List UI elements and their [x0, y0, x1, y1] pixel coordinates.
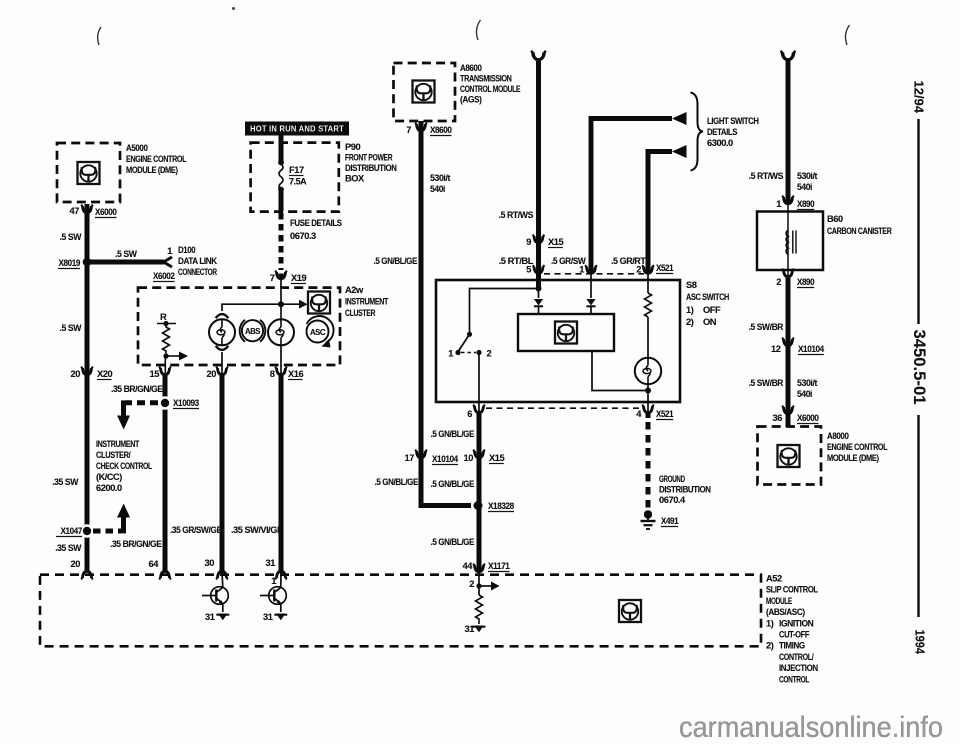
svg-text:31: 31 — [465, 624, 475, 634]
icon ASC — [307, 321, 329, 343]
wire C pin20 to pin30 — [220, 375, 225, 572]
scan dot — [232, 7, 235, 10]
lamp in S8 — [635, 358, 661, 384]
svg-text:1994: 1994 — [913, 630, 928, 655]
svg-text:X491: X491 — [661, 516, 678, 526]
svg-text:CHECK CONTROL: CHECK CONTROL — [96, 461, 152, 471]
wire col A from A5000 to A52 — [85, 204, 90, 573]
svg-text:CLUSTER/: CLUSTER/ — [96, 450, 131, 460]
svg-text:DATA LINK: DATA LINK — [178, 256, 217, 266]
connector X6000 pin 47 — [81, 205, 93, 213]
connector X16 pin 8 — [275, 367, 287, 375]
module A8600 icon — [413, 81, 435, 103]
svg-text:30: 30 — [205, 558, 215, 568]
svg-text:20: 20 — [71, 559, 81, 569]
svg-text:MODULE (DME): MODULE (DME) — [126, 165, 178, 175]
svg-text:X8019: X8019 — [59, 258, 81, 268]
wire pin4 ground distribution dashed — [646, 413, 651, 510]
wire pin12 down — [786, 347, 791, 414]
module A8000 box — [758, 427, 822, 485]
svg-text:7: 7 — [406, 125, 411, 135]
svg-text:530i/t: 530i/t — [797, 378, 817, 388]
wire arrow from R — [166, 355, 180, 357]
svg-text:31: 31 — [205, 612, 215, 622]
svg-text:.5 SW: .5 SW — [60, 232, 82, 242]
svg-text:X1047: X1047 — [61, 526, 83, 536]
svg-text:DISTRIBUTION: DISTRIBUTION — [659, 485, 711, 495]
svg-text:20: 20 — [207, 369, 217, 379]
svg-text:7: 7 — [270, 273, 275, 283]
svg-text:20: 20 — [71, 369, 81, 379]
margin rule lower — [917, 415, 919, 617]
svg-text:.5 GN/BL/GE: .5 GN/BL/GE — [431, 537, 475, 547]
node X1047 junction with bent arrow — [80, 524, 94, 538]
svg-text:47: 47 — [70, 206, 80, 216]
svg-text:540i: 540i — [797, 389, 812, 399]
ground 31 Q2 — [274, 614, 287, 621]
lamp K1 ABS warning — [216, 314, 229, 318]
svg-text:CARBON CANISTER: CARBON CANISTER — [827, 226, 892, 236]
svg-text:6: 6 — [467, 409, 472, 419]
svg-text:CONNECTOR: CONNECTOR — [178, 267, 217, 277]
transistor Q1 — [221, 572, 224, 588]
svg-text:0670.3: 0670.3 — [290, 231, 316, 241]
diode on pin1 branch — [586, 299, 595, 306]
svg-text:.35 GR/SW/GE: .35 GR/SW/GE — [170, 525, 222, 535]
svg-text:15: 15 — [150, 369, 160, 379]
svg-text:CONTROL/: CONTROL/ — [779, 652, 814, 662]
wire arrow inside A52 — [479, 585, 492, 587]
wire pin2 down — [786, 278, 791, 346]
svg-text:INJECTION: INJECTION — [779, 663, 818, 673]
wire pin6 down — [477, 413, 482, 573]
svg-text:LIGHT SWITCH: LIGHT SWITCH — [707, 116, 759, 126]
wire to D100 data link connector — [87, 260, 164, 265]
module A5000 box — [57, 143, 120, 202]
svg-text:MODULE (DME): MODULE (DME) — [827, 453, 879, 463]
module A8600 transmission box — [394, 63, 456, 121]
box B60 carbon canister — [757, 212, 823, 271]
svg-text:HOT IN RUN AND START: HOT IN RUN AND START — [250, 124, 345, 134]
wire through box — [787, 205, 789, 277]
svg-text:530i/t: 530i/t — [430, 173, 450, 183]
scan mark top-right — [845, 25, 849, 45]
svg-text:ON: ON — [703, 317, 717, 327]
svg-text:540i: 540i — [430, 184, 445, 194]
svg-text:.5 GN/BL/GE: .5 GN/BL/GE — [374, 256, 418, 266]
svg-text:2): 2) — [766, 641, 774, 651]
node junction — [536, 286, 542, 292]
svg-text:TIMING: TIMING — [779, 641, 805, 651]
svg-text:3450.5-01: 3450.5-01 — [910, 330, 928, 405]
connector X521 dashed line — [544, 273, 644, 275]
brace — [691, 93, 704, 171]
light switch branch 1 — [591, 119, 672, 274]
svg-text:F17: F17 — [289, 165, 304, 175]
wire to X18328 — [421, 458, 471, 505]
scan mark top-middle — [476, 20, 480, 40]
pin 6 fork — [473, 405, 485, 413]
wire carbon canister top bird — [781, 51, 796, 60]
svg-text:540i: 540i — [797, 182, 812, 192]
svg-text:CLUSTER: CLUSTER — [345, 308, 376, 318]
diode on pin5 branch — [538, 289, 540, 299]
lamp K2 ASC warning — [268, 319, 294, 345]
svg-text:R: R — [160, 312, 167, 322]
pin 4 fork — [642, 405, 654, 413]
connector X8600 pin 7 — [415, 123, 427, 131]
switch lever — [467, 332, 472, 337]
connector X16 pin 20 — [216, 367, 228, 375]
wire from inner box to lamp bottom — [592, 351, 645, 391]
svg-text:6200.0: 6200.0 — [96, 483, 122, 493]
hot in run and start bar — [245, 122, 349, 136]
svg-text:X1171: X1171 — [488, 561, 510, 571]
svg-text:X16: X16 — [288, 369, 303, 379]
svg-text:.35 SW: .35 SW — [55, 543, 81, 553]
svg-text:64: 64 — [149, 559, 160, 569]
svg-text:.5 RT/WS: .5 RT/WS — [499, 210, 534, 220]
svg-text:B60: B60 — [827, 214, 843, 224]
ground X491 — [644, 510, 652, 518]
svg-text:DISTRIBUTION: DISTRIBUTION — [345, 163, 397, 173]
svg-text:0670.4: 0670.4 — [659, 495, 686, 505]
wire D pin8 to pin31 — [279, 375, 284, 572]
wire arrow to check control — [126, 400, 158, 405]
svg-text:12/94: 12/94 — [912, 81, 927, 114]
fuse F17 — [279, 136, 284, 162]
connector X521 bottom dashed line — [486, 407, 641, 409]
svg-text:2: 2 — [487, 349, 492, 359]
svg-text:.35 BR/GN/GE: .35 BR/GN/GE — [110, 539, 162, 549]
wire into cluster — [280, 274, 282, 310]
svg-text:CONTROL: CONTROL — [779, 674, 810, 684]
wire pin5 into box — [536, 274, 541, 287]
svg-text:X18328: X18328 — [488, 501, 514, 511]
svg-text:OFF: OFF — [703, 305, 721, 315]
svg-text:.5 GN/BL/GE: .5 GN/BL/GE — [431, 429, 475, 439]
svg-text:X890: X890 — [797, 277, 814, 287]
ground 31 Q1 — [216, 614, 229, 621]
svg-text:DETAILS: DETAILS — [707, 127, 737, 137]
svg-text:X521: X521 — [656, 409, 673, 419]
connector X19 pin 7 — [275, 271, 287, 279]
svg-text:2: 2 — [776, 277, 781, 287]
module A2w instrument cluster box — [138, 288, 340, 365]
node X10093 junction over wire — [158, 396, 172, 410]
connector X890 pin 1 — [782, 196, 794, 204]
switch S8 box — [436, 280, 680, 402]
svg-text:1: 1 — [167, 246, 172, 256]
wire pin1 into box — [590, 274, 592, 298]
pin 64 at A52 — [159, 571, 171, 579]
svg-text:44: 44 — [463, 561, 474, 571]
svg-text:7.5A: 7.5A — [289, 177, 307, 187]
node junction on X19 wire — [278, 301, 284, 307]
svg-text:INSTRUMENT: INSTRUMENT — [96, 439, 140, 449]
wire contact2 down to pin 6 — [478, 353, 480, 413]
module icon inner — [555, 322, 577, 344]
svg-text:X10093: X10093 — [173, 398, 199, 408]
connector D100 pin 1 arrow — [164, 257, 173, 267]
module A8000 icon — [778, 445, 800, 467]
svg-text:A8600: A8600 — [460, 63, 482, 73]
svg-text:1): 1) — [686, 305, 694, 315]
svg-text:.5 SW/BR: .5 SW/BR — [749, 378, 784, 388]
svg-text:carmanualsonline.info: carmanualsonline.info — [679, 711, 943, 744]
svg-text:X15: X15 — [489, 453, 504, 463]
svg-text:A8000: A8000 — [827, 431, 849, 441]
svg-text:31: 31 — [263, 612, 273, 622]
pin 30 at A52 — [216, 571, 228, 579]
wire to switch — [470, 289, 539, 333]
svg-text:X20: X20 — [97, 369, 112, 379]
connector X20 pin 20 — [81, 367, 93, 375]
svg-text:X6002: X6002 — [153, 271, 175, 281]
svg-text:INSTRUMENT: INSTRUMENT — [345, 297, 389, 307]
wire pin9 to pin5 — [536, 243, 541, 273]
node X8019 junction — [83, 258, 92, 267]
svg-text:X8600: X8600 — [430, 125, 452, 135]
svg-text:X890: X890 — [797, 199, 814, 209]
svg-text:X10104: X10104 — [432, 454, 459, 464]
svg-text:(K/CC): (K/CC) — [96, 472, 122, 482]
svg-text:530i/t: 530i/t — [797, 171, 817, 181]
svg-text:36: 36 — [773, 413, 783, 423]
svg-text:X521: X521 — [656, 263, 673, 273]
svg-text:GROUND: GROUND — [659, 474, 685, 484]
svg-text:A2w: A2w — [345, 285, 364, 295]
connector X15 pin 10 — [473, 450, 485, 458]
svg-text:(AGS): (AGS) — [460, 95, 482, 105]
connector X10104 pin 17 — [415, 450, 427, 458]
svg-text:MODULE: MODULE — [766, 596, 792, 606]
svg-text:D100: D100 — [178, 245, 195, 255]
pin 5 fork — [533, 265, 545, 273]
box P90 front power distribution — [251, 143, 339, 212]
svg-text:31: 31 — [266, 558, 276, 568]
connector X10104 pin 12 — [782, 338, 794, 346]
svg-text:.5 SW: .5 SW — [115, 249, 137, 259]
svg-text:FRONT POWER: FRONT POWER — [345, 153, 393, 163]
wire fuse details (dashed) — [279, 213, 284, 270]
node X18328 junction — [474, 501, 483, 510]
module icon in cluster — [308, 292, 330, 314]
connector X15 pin 9 — [533, 235, 545, 243]
inner control box — [518, 314, 614, 351]
svg-text:CONTROL MODULE: CONTROL MODULE — [460, 84, 520, 94]
node X10093 junction with bent arrow — [158, 396, 172, 410]
svg-text:P90: P90 — [345, 142, 360, 152]
connector X6000 pin 36 — [782, 406, 794, 414]
svg-text:6300.0: 6300.0 — [707, 138, 733, 148]
connector X1171 pin 44 — [473, 564, 485, 572]
svg-text:IGNITION: IGNITION — [779, 618, 814, 628]
svg-text:17: 17 — [405, 453, 415, 463]
svg-text:.35 SW/VI/GE: .35 SW/VI/GE — [231, 525, 283, 535]
module A5000 icon — [78, 162, 100, 184]
wire B pin15 to pin64 — [163, 375, 168, 572]
svg-text:1): 1) — [766, 618, 774, 628]
svg-text:ENGINE CONTROL: ENGINE CONTROL — [827, 442, 888, 452]
svg-text:ASC SWITCH: ASC SWITCH — [686, 292, 730, 302]
svg-text:.5 SW: .5 SW — [60, 323, 82, 333]
pin 31 at A52 — [275, 571, 287, 579]
svg-text:5: 5 — [526, 265, 531, 275]
ground 31 — [473, 626, 486, 633]
resistor on pin2 branch — [647, 274, 649, 293]
svg-text:2: 2 — [469, 579, 474, 589]
resistor inside A52 — [476, 595, 483, 624]
svg-text:9: 9 — [526, 237, 531, 247]
svg-text:1: 1 — [776, 199, 781, 209]
inductor coil — [786, 231, 788, 255]
svg-text:TRANSMISSION: TRANSMISSION — [460, 74, 512, 84]
svg-text:S8: S8 — [686, 280, 697, 290]
margin rule upper — [917, 119, 919, 324]
svg-text:2): 2) — [686, 317, 694, 327]
svg-text:SLIP CONTROL: SLIP CONTROL — [766, 585, 818, 595]
connector X16 pin 15 — [159, 367, 171, 375]
wire X8600 down — [419, 121, 424, 458]
svg-text:12: 12 — [771, 344, 781, 354]
svg-text:8: 8 — [270, 369, 275, 379]
wire arrow from X1047 — [93, 529, 121, 534]
svg-text:ENGINE CONTROL: ENGINE CONTROL — [126, 154, 187, 164]
connector X890 pin 2 — [782, 269, 794, 277]
svg-text:1: 1 — [448, 349, 453, 359]
svg-text:(ABS/ASC): (ABS/ASC) — [766, 607, 805, 617]
pin 20 at A52 — [81, 571, 93, 579]
svg-text:.5 RT/WS: .5 RT/WS — [749, 171, 784, 181]
wire into A8000 — [786, 414, 791, 427]
module A52 icon — [619, 600, 641, 622]
svg-text:A5000: A5000 — [126, 143, 148, 153]
svg-text:1: 1 — [271, 576, 276, 586]
svg-text:10: 10 — [464, 453, 474, 463]
svg-text:A52: A52 — [766, 574, 782, 584]
svg-text:X10104: X10104 — [798, 344, 825, 354]
pin 1 fork — [585, 265, 597, 273]
svg-text:.35 SW: .35 SW — [52, 477, 78, 487]
wire rail to module icon — [222, 304, 301, 311]
svg-text:.35 BR/GN/GE: .35 BR/GN/GE — [111, 384, 163, 394]
svg-text:.5 GN/BL/GE: .5 GN/BL/GE — [431, 479, 475, 489]
svg-text:X6000: X6000 — [797, 413, 819, 423]
svg-text:ABS: ABS — [245, 327, 260, 336]
light switch branch 2 — [648, 152, 672, 274]
svg-text:.5 SW/BR: .5 SW/BR — [749, 322, 784, 332]
svg-text:FUSE DETAILS: FUSE DETAILS — [290, 218, 342, 228]
module A52 slip control box — [40, 575, 761, 647]
svg-text:ASC: ASC — [310, 328, 326, 337]
svg-text:.5 GN/BL/GE: .5 GN/BL/GE — [375, 477, 419, 487]
svg-text:X6000: X6000 — [95, 207, 117, 217]
pin 2 fork — [642, 265, 654, 273]
icon ABS — [242, 320, 263, 341]
wire RT/WS top bird — [531, 51, 546, 60]
svg-text:CUT-OFF: CUT-OFF — [779, 630, 810, 640]
svg-text:BOX: BOX — [345, 174, 365, 184]
scan mark top-left — [98, 27, 101, 45]
svg-text:X19: X19 — [291, 273, 306, 283]
svg-text:X15: X15 — [548, 237, 563, 247]
